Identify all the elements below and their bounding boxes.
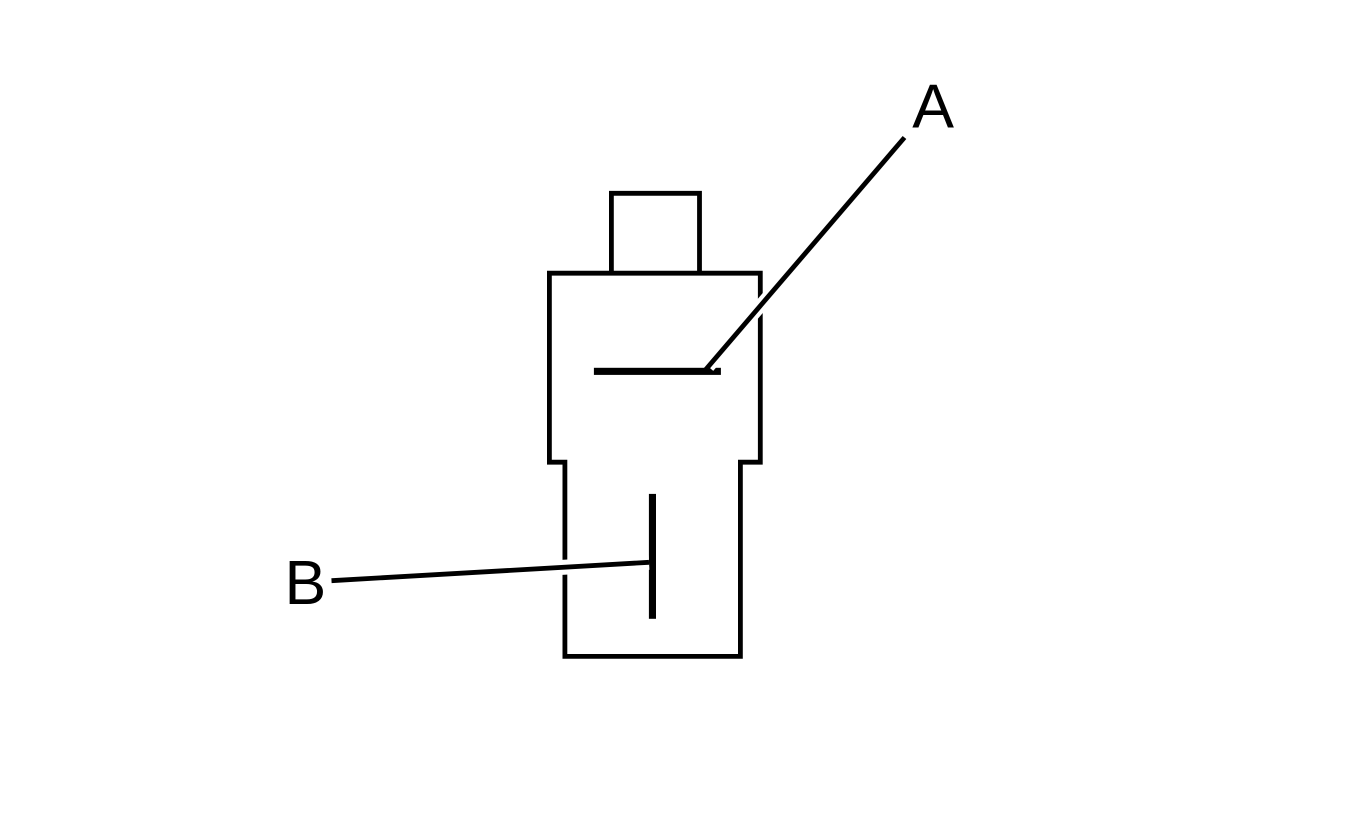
terminal A (horizontal pin bar) [594, 368, 721, 375]
white casing of leader line A [708, 138, 904, 367]
svg-text:B: B [285, 548, 327, 618]
white casing of leader line B [332, 562, 650, 580]
lock tab (small top rectangle) [611, 193, 699, 273]
leader line A [705, 138, 905, 371]
leader line B [332, 562, 650, 580]
svg-text:A: A [912, 72, 954, 142]
connector body outline (stepped housing) [549, 273, 760, 656]
terminal B (vertical pin bar) [649, 494, 656, 619]
